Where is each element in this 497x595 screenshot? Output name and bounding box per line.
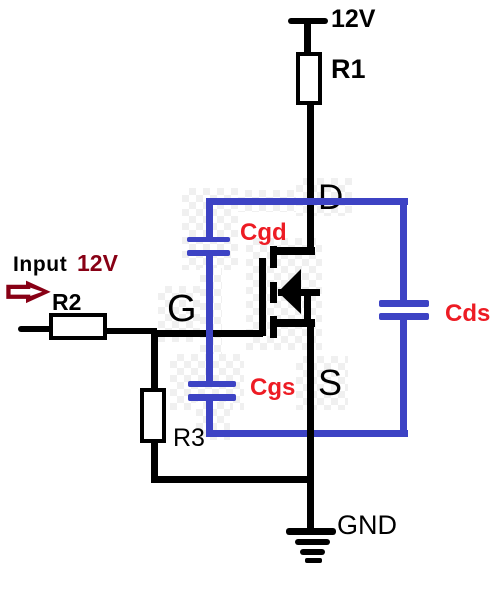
MOSFET Q1 body arrow xyxy=(270,265,320,320)
capacitor Cds top plate xyxy=(379,300,429,307)
checker halo Cgs lower lead xyxy=(196,402,230,440)
checker halo around D label xyxy=(296,178,352,216)
label Cgd xyxy=(240,221,287,245)
blue bottom rail (Cgs/Cds to source) xyxy=(206,430,408,437)
label 12V (supply) xyxy=(331,7,375,32)
blue right vertical lower (Cds to bottom rail) xyxy=(400,318,407,437)
label R2 xyxy=(52,291,81,314)
capacitor Cds bottom plate xyxy=(379,313,429,320)
label R1 xyxy=(331,56,366,83)
MOSFET Q1 source connector xyxy=(271,319,315,327)
12V supply bar xyxy=(288,18,328,24)
wire source to GND xyxy=(307,319,314,531)
label Cgs xyxy=(250,376,295,400)
capacitor Cgs bottom plate xyxy=(188,394,236,401)
blue left vertical lower (Cgs to bottom rail) xyxy=(206,400,213,437)
label GND xyxy=(337,512,397,539)
label Input xyxy=(13,254,67,275)
label 12V (input, dark red) xyxy=(77,252,118,275)
capacitor Cgd bottom plate xyxy=(187,250,230,256)
wire 12V bar to R1 xyxy=(304,22,311,54)
wire gate node down to R3 xyxy=(151,333,158,390)
ground bar 2 xyxy=(295,539,330,545)
wire gate node to gate bar xyxy=(151,330,263,337)
checker halo left blue vertical xyxy=(200,268,222,382)
input arrow xyxy=(5,279,53,305)
MOSFET Q1 channel bottom segment xyxy=(270,316,277,338)
ground bar 3 xyxy=(300,549,325,555)
wire R2 to gate node xyxy=(106,328,157,334)
label R3 xyxy=(173,426,205,451)
wire input stub xyxy=(18,326,52,332)
blue top rail (D to Cgd/Cds) xyxy=(206,198,408,205)
resistor R3 xyxy=(140,388,166,443)
resistor R1 xyxy=(296,52,322,105)
wire R3 to source rail xyxy=(151,476,312,483)
checker halo top rail strip xyxy=(238,190,300,212)
capacitor Cgd top plate xyxy=(187,237,230,242)
blue left vertical upper (to Cgd) xyxy=(206,198,213,237)
wire R1 to drain xyxy=(307,103,314,254)
blue left vertical middle (Cgd to Cgs) xyxy=(206,255,213,382)
MOSFET Q1 drain connector xyxy=(271,247,315,255)
ground bar 1 xyxy=(286,528,336,535)
node S label xyxy=(318,365,342,401)
resistor R2 xyxy=(49,313,107,340)
checker halo around S label xyxy=(296,356,348,410)
label Cds xyxy=(445,302,490,326)
MOSFET Q1 body-source vertical xyxy=(304,292,311,327)
node G label xyxy=(167,290,197,328)
node D label xyxy=(318,180,343,215)
MOSFET Q1 gate bar xyxy=(259,258,266,336)
MOSFET Q1 channel middle segment xyxy=(270,282,277,303)
checker halo around MOSFET xyxy=(246,238,322,350)
checker halo around top blue rail / Cgd xyxy=(182,188,238,270)
blue right vertical upper (top rail to Cds) xyxy=(400,198,407,302)
capacitor Cgs top plate xyxy=(188,381,236,387)
wire R3 bottom xyxy=(151,442,158,482)
ground bar 4 xyxy=(305,558,322,563)
checker halo around G label xyxy=(158,286,218,342)
MOSFET Q1 channel top segment xyxy=(270,246,277,268)
checker halo around Cgs xyxy=(170,354,244,410)
